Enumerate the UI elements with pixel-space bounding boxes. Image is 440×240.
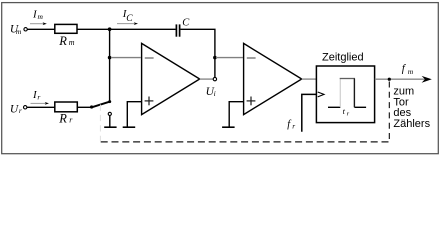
svg-text:C: C	[182, 17, 190, 28]
svg-text:r: r	[292, 122, 295, 131]
svg-text:Zählers: Zählers	[393, 118, 430, 130]
svg-text:r: r	[37, 93, 40, 102]
svg-text:m: m	[408, 67, 414, 76]
svg-text:Zeitglied: Zeitglied	[322, 51, 364, 63]
svg-text:R: R	[58, 34, 67, 48]
svg-text:i: i	[214, 89, 216, 98]
svg-text:m: m	[69, 38, 75, 47]
svg-text:r: r	[19, 106, 22, 115]
svg-text:C: C	[126, 14, 133, 24]
svg-text:R: R	[58, 111, 67, 125]
svg-text:m: m	[38, 12, 44, 21]
svg-text:U: U	[10, 103, 19, 115]
svg-text:m: m	[16, 27, 22, 36]
